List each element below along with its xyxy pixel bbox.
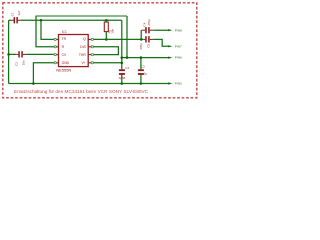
- flag arrows: [168, 29, 172, 85]
- capacitor C1 top-left: [11, 17, 21, 23]
- capacitor C2 (CV): [16, 51, 25, 57]
- svg-text:PIN6: PIN6: [175, 56, 182, 60]
- IC1 pin circles: [54, 38, 93, 64]
- capacitor C3 (bottom middle right): [138, 69, 144, 75]
- wire GND pin: [33, 63, 54, 84]
- wire CV net: [9, 53, 55, 55]
- svg-text:C2: C2: [14, 62, 18, 66]
- svg-text:C3: C3: [141, 65, 145, 69]
- IC1 pin leads: [56, 39, 91, 62]
- svg-text:PIN7: PIN7: [175, 44, 182, 48]
- svg-text:CV: CV: [62, 53, 67, 57]
- wire reset net y16: [36, 16, 54, 47]
- svg-text:DIS: DIS: [80, 45, 86, 49]
- svg-text:470p: 470p: [139, 43, 143, 50]
- junction dots: [7, 19, 142, 85]
- svg-text:470p: 470p: [147, 19, 151, 26]
- wire cap B stubs: [140, 58, 142, 84]
- svg-text:IC1: IC1: [62, 30, 67, 34]
- wire vertical x121.8: [121, 20, 123, 83]
- wire DIS-THR jog: [93, 47, 118, 55]
- svg-text:THR: THR: [79, 53, 87, 57]
- wire V+ pin: [93, 62, 121, 64]
- resistor R1 labels: [108, 28, 115, 33]
- svg-text:GND: GND: [62, 61, 70, 65]
- capacitor C2 labels: [14, 60, 25, 66]
- svg-text:1µ: 1µ: [144, 72, 148, 76]
- capacitor C1b labels: [119, 66, 130, 80]
- svg-text:10k: 10k: [110, 28, 114, 33]
- flag labels: [175, 28, 182, 85]
- capacitor C5 labels: [139, 43, 150, 50]
- svg-text:TR: TR: [62, 37, 67, 41]
- svg-text:Ersatzschaltung für den MC3416: Ersatzschaltung für den MC34161 beim VCR…: [14, 89, 149, 94]
- IC1 pin names: [62, 37, 87, 65]
- capacitor C4 top-right: [142, 27, 154, 33]
- svg-text:4µ7: 4µ7: [17, 10, 21, 15]
- IC1 NE555 box: [59, 35, 89, 67]
- capacitor C1b (bottom middle): [119, 69, 125, 75]
- resistor R1: [104, 20, 108, 39]
- wire TR pin drop: [41, 20, 54, 39]
- wire pin7 net: [153, 39, 169, 46]
- capacitor C5 lower-right: [143, 36, 153, 42]
- capacitor C1 labels: [10, 10, 21, 16]
- wire Q output net: [93, 38, 143, 40]
- wire ground rail left vertical: [8, 20, 10, 83]
- svg-text:C1: C1: [10, 12, 14, 16]
- svg-text:V+: V+: [82, 61, 86, 65]
- svg-text:C5: C5: [146, 44, 150, 48]
- wire pin6 net: [122, 57, 170, 59]
- svg-text:PIN8: PIN8: [175, 28, 182, 32]
- svg-text:0µ68: 0µ68: [119, 76, 126, 80]
- svg-text:NE555N: NE555N: [56, 67, 71, 72]
- wire pin8 net: [153, 29, 169, 31]
- capacitor C4 labels: [143, 19, 151, 27]
- svg-text:PIN3: PIN3: [175, 82, 182, 86]
- svg-text:C1: C1: [125, 66, 129, 70]
- capacitor C3 labels: [141, 65, 148, 76]
- wire trigger net y20: [9, 19, 122, 21]
- wire bottom ground rail: [9, 83, 170, 85]
- frame border dashed: [3, 3, 197, 98]
- wire cap C link: [140, 30, 142, 39]
- svg-text:Q: Q: [83, 37, 86, 41]
- svg-text:10n: 10n: [21, 60, 25, 65]
